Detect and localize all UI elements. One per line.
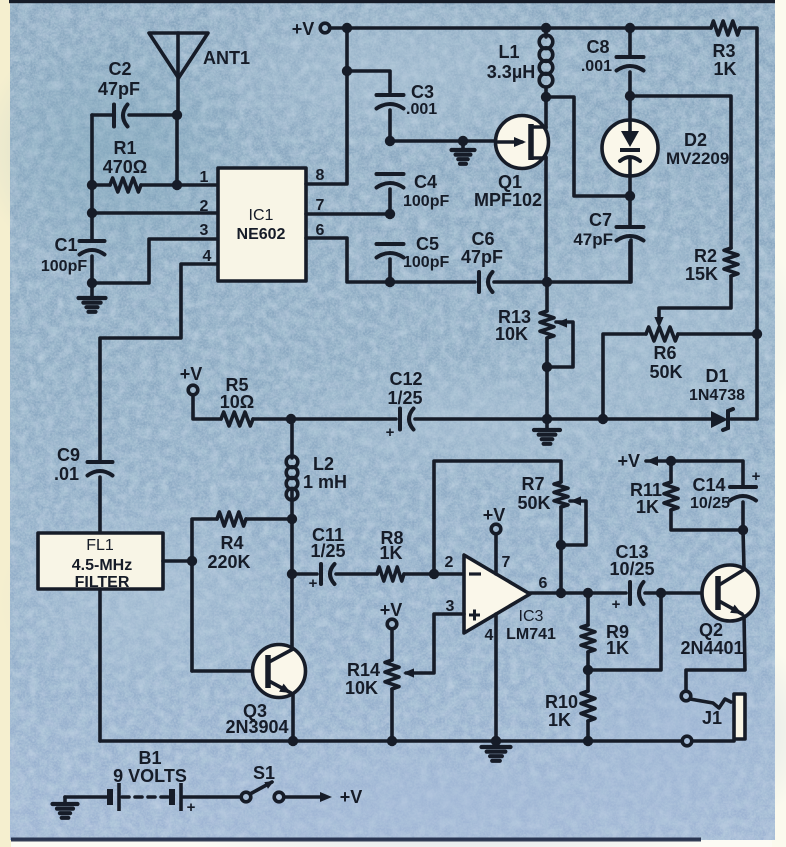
svg-text:1K: 1K [548, 710, 571, 730]
antenna ANT1 [149, 33, 250, 113]
svg-text:R3: R3 [712, 41, 735, 61]
svg-text:100pF: 100pF [403, 254, 449, 271]
jack J1 body [702, 694, 745, 739]
svg-text:7: 7 [502, 554, 511, 571]
wire R2 to R6 wiper [659, 276, 731, 318]
svg-text:+: + [187, 799, 196, 816]
wire R7 bottom [559, 507, 563, 593]
svg-text:50K: 50K [649, 362, 682, 382]
battery B1 [110, 783, 196, 816]
svg-text:+: + [386, 424, 395, 441]
transistor Q3 2N3904 [225, 645, 305, 738]
node L2 top junction [286, 414, 296, 424]
capacitor C6 [461, 229, 503, 292]
wire rail to J1 [692, 739, 734, 743]
R13 wiper [547, 318, 573, 367]
wire IC1 pin 6 [306, 238, 390, 282]
svg-text:4.5-MHz: 4.5-MHz [72, 557, 132, 574]
wire R4 right [246, 517, 292, 521]
capacitor C4 [377, 172, 450, 210]
node R1 right junction [172, 180, 182, 190]
wire battery to S1 [183, 795, 241, 799]
svg-text:15K: 15K [685, 264, 718, 284]
R14 wiper arrow [403, 668, 414, 677]
wire op-amp pin3 [406, 614, 464, 673]
wire D1 to right rail [731, 417, 757, 421]
node top rail junction C8 [625, 23, 635, 33]
capacitor C7 [573, 196, 643, 249]
wire C4 to pin7 line [388, 189, 392, 213]
pin 7 label [316, 197, 325, 214]
wire R3 to right rail [740, 28, 757, 419]
J1 sleeve terminal [682, 736, 692, 746]
wire R11 top to C14 [671, 461, 743, 485]
svg-text:C14: C14 [692, 475, 725, 495]
svg-text:10K: 10K [495, 324, 528, 344]
svg-text:+: + [309, 575, 318, 592]
node R13 wiper junction [542, 362, 552, 372]
svg-text:ANT1: ANT1 [203, 48, 250, 68]
wire op-amp pin4 [494, 614, 498, 741]
wire C11 to R8 [336, 572, 377, 576]
svg-text:100pF: 100pF [403, 193, 449, 210]
svg-text:R7: R7 [521, 474, 544, 494]
wire IC1 pin 3 [92, 239, 218, 283]
op-amp IC3 LM741 [464, 555, 556, 643]
node FL1 output junction [187, 556, 197, 566]
svg-text:7: 7 [316, 197, 325, 214]
pin 3 label [200, 222, 209, 239]
wire left rail [90, 115, 94, 241]
pin 8 label [316, 167, 325, 184]
wire +V to rail [330, 26, 347, 30]
svg-text:C1: C1 [54, 235, 77, 255]
svg-text:1/25: 1/25 [387, 388, 422, 408]
node pin2 junction [87, 208, 97, 218]
capacitor C5 [377, 234, 450, 271]
svg-text:+V: +V [340, 787, 363, 807]
pin 6 label [316, 222, 325, 239]
potentiometer R7 [517, 474, 568, 513]
svg-text:3: 3 [200, 222, 209, 239]
node R10 ground junction [583, 736, 593, 746]
wire bottom line right [494, 240, 631, 282]
wire R13 top [545, 282, 549, 311]
svg-text:2: 2 [200, 198, 209, 215]
node gate ground junction [458, 136, 468, 146]
svg-text:220K: 220K [207, 552, 250, 572]
wire left rail to R1 [92, 183, 110, 187]
svg-text:470Ω: 470Ω [103, 157, 147, 177]
wire Q1 source [544, 157, 548, 282]
+V R14 terminal [380, 600, 403, 629]
R6 wiper arrow [654, 317, 663, 328]
wire Q3 collector [290, 574, 294, 648]
node C3-C4 junction [385, 136, 395, 146]
node Q2 collector junction [738, 525, 748, 535]
wire R6 right [678, 332, 757, 336]
node pin4 ground junction [491, 736, 501, 746]
svg-text:B1: B1 [138, 748, 161, 768]
svg-text:2N3904: 2N3904 [225, 717, 288, 737]
wire Q3 emitter [291, 694, 295, 741]
node output junction R7 [556, 588, 566, 598]
node output junction R9 [583, 588, 593, 598]
svg-text:IC3: IC3 [519, 608, 544, 625]
pin 7 label IC3 [502, 554, 511, 571]
svg-text:.01: .01 [54, 464, 79, 484]
filter FL1 box [38, 533, 163, 591]
wire C13 to Q2 base [645, 591, 703, 595]
capacitor C8 [581, 28, 644, 75]
transistor Q2 2N4401 [680, 565, 758, 658]
node pin7 junction [385, 209, 395, 219]
ground on gate line [452, 141, 475, 164]
+V battery label [340, 787, 363, 807]
node C8-D2 junction [625, 91, 635, 101]
wire branch to C3 [347, 71, 390, 92]
wire Q2 emitter [686, 616, 745, 691]
wire bottom line left [390, 280, 475, 284]
wire R8 to op-amp [404, 572, 464, 576]
svg-text:9 VOLTS: 9 VOLTS [113, 766, 187, 786]
node Q1 source junction [542, 277, 552, 287]
svg-text:10Ω: 10Ω [220, 392, 254, 412]
wire R1 to IC1 pin 1 [141, 183, 218, 187]
border bottom [11, 838, 701, 842]
capacitor C9 [54, 445, 113, 484]
svg-text:Q1: Q1 [498, 172, 522, 192]
resistor R4 [207, 512, 250, 572]
svg-text:6: 6 [539, 575, 548, 592]
resistor R5 [220, 375, 254, 426]
R7 wiper [561, 496, 586, 545]
svg-text:C8: C8 [586, 37, 609, 57]
svg-text:10K: 10K [345, 678, 378, 698]
pin 4 label IC3 [485, 627, 494, 644]
ground below IC3 [482, 741, 511, 761]
svg-text:C2: C2 [108, 59, 131, 79]
svg-text:1K: 1K [713, 59, 736, 79]
node Q3 emitter junction [288, 736, 298, 746]
svg-text:+V: +V [617, 451, 640, 471]
svg-text:LM741: LM741 [506, 626, 556, 643]
node R13 ground junction [542, 414, 552, 424]
wire pin8 riser [306, 28, 347, 184]
ground below R13 [534, 419, 560, 444]
resistor R8 [377, 528, 404, 581]
IC IC1 NE602 [218, 168, 306, 281]
node R14 ground junction [387, 736, 397, 746]
wire op-amp output [528, 591, 626, 595]
wire bottom rail [100, 739, 682, 743]
J1 contact [690, 699, 731, 708]
node R11 top junction [666, 456, 676, 466]
wire C1 to ground [90, 256, 94, 297]
+V op-amp terminal [483, 505, 506, 534]
wire IC1 pin 7 [306, 212, 390, 216]
node pin3 junction [87, 278, 97, 288]
svg-text:1: 1 [200, 169, 209, 186]
wire op-amp pin7 [494, 534, 498, 574]
svg-text:C12: C12 [389, 369, 422, 389]
svg-text:FILTER: FILTER [75, 574, 130, 591]
capacitor C1 [41, 235, 105, 275]
wire gate line to Q1 [390, 139, 496, 143]
wire R5 to C12 [253, 417, 396, 421]
capacitor C3 [377, 82, 438, 118]
J1 tip terminal [681, 691, 691, 701]
+V mid terminal [180, 364, 203, 395]
+V top terminal [292, 19, 330, 39]
svg-text:100pF: 100pF [41, 258, 87, 275]
svg-text:.001: .001 [581, 58, 612, 75]
potentiometer R14 [345, 660, 399, 698]
potentiometer R6 [646, 327, 683, 382]
ground battery [53, 797, 108, 818]
svg-text:+V: +V [292, 19, 315, 39]
ground below C1 [79, 298, 106, 312]
svg-text:R6: R6 [653, 343, 676, 363]
wire C8 to D2 [628, 72, 632, 120]
node top rail junction A [342, 23, 352, 33]
switch S1 [241, 763, 284, 802]
svg-text:2: 2 [445, 554, 454, 571]
pin 1 label [200, 169, 209, 186]
svg-text:MPF102: MPF102 [474, 190, 542, 210]
svg-text:C6: C6 [471, 229, 494, 249]
svg-text:8: 8 [316, 167, 325, 184]
svg-text:L2: L2 [313, 454, 334, 474]
wire C2 right [129, 113, 177, 117]
svg-text:S1: S1 [253, 763, 275, 783]
wire R9 loop to C13 [588, 593, 661, 670]
svg-text:10/25: 10/25 [609, 559, 654, 579]
svg-text:C9: C9 [57, 445, 80, 465]
svg-text:47pF: 47pF [573, 230, 613, 249]
wire C9 to FL1 [98, 477, 102, 533]
svg-text:R4: R4 [220, 533, 243, 553]
battery B1 labels [113, 748, 187, 786]
svg-text:R14: R14 [347, 660, 380, 680]
node op-amp pin2 junction [429, 569, 439, 579]
wire FL1 bottom [98, 589, 102, 741]
svg-text:50K: 50K [517, 493, 550, 513]
node D2 bottom junction [625, 191, 635, 201]
svg-text:C5: C5 [416, 234, 439, 254]
resistor R1 [103, 138, 147, 192]
node L1 bottom junction [541, 92, 551, 102]
diode D1 1N4738 [689, 366, 745, 430]
svg-text:+V: +V [380, 600, 403, 620]
node top rail junction L1 [541, 23, 551, 33]
wire R10 bottom [586, 721, 590, 741]
svg-text:C4: C4 [414, 172, 437, 192]
wire C7 down [628, 242, 632, 282]
node L2 bottom junction [287, 514, 297, 524]
wire R13 bottom [545, 338, 549, 419]
wire L1 junction to D2 bottom [546, 97, 630, 196]
pin 2 label [200, 198, 209, 215]
wire Q2 collector [743, 530, 744, 568]
wire top rail [347, 26, 711, 30]
svg-text:.001: .001 [406, 101, 437, 118]
wire +V to R14 [390, 629, 394, 660]
node R6 left junction [598, 414, 608, 424]
transistor Q1 MPF102 [474, 116, 549, 211]
inductor L2 [286, 419, 347, 519]
wire C14 bottom [741, 502, 745, 530]
resistor R10 [545, 691, 595, 730]
wire C2 left [92, 113, 114, 117]
node right rail R6 junction [752, 329, 762, 339]
pin 6 label IC3 [539, 575, 548, 592]
svg-text:1 mH: 1 mH [303, 472, 347, 492]
node C13 right junction [656, 588, 666, 598]
resistor R2 [685, 246, 738, 284]
wire +V to R5 [193, 395, 221, 419]
capacitor C14 [690, 468, 761, 512]
pin 3 label IC3 [446, 598, 455, 615]
wire FL1 output [163, 559, 192, 563]
svg-text:MV2209: MV2209 [666, 149, 729, 168]
pin 2 label IC3 [445, 554, 454, 571]
wire junction to R2 [630, 96, 731, 248]
resistor R3 [711, 21, 740, 79]
svg-text:1K: 1K [606, 638, 629, 658]
svg-text:1K: 1K [636, 497, 659, 517]
node pin6 junction [385, 277, 395, 287]
svg-text:+: + [612, 596, 621, 613]
node R9-R10 junction [583, 665, 593, 675]
wire R9 bottom [586, 652, 590, 691]
resistor R9 [581, 593, 629, 658]
wire feedback loop [434, 461, 561, 574]
svg-text:J1: J1 [702, 708, 722, 728]
node antenna-C2 junction [172, 110, 182, 120]
svg-text:47pF: 47pF [461, 247, 503, 267]
capacitor C2 [98, 59, 140, 127]
capacitor C12 [386, 369, 423, 441]
capacitor C13 [609, 542, 654, 613]
capacitor C11 [292, 525, 346, 592]
svg-text:R2: R2 [694, 246, 717, 266]
wire C5 to bottom line [388, 259, 392, 282]
svg-text:1K: 1K [379, 543, 402, 563]
svg-text:47pF: 47pF [98, 79, 140, 99]
svg-text:4: 4 [203, 248, 212, 265]
svg-text:NE602: NE602 [237, 226, 286, 243]
wire IC1 pin 4 [100, 264, 218, 460]
svg-text:1/25: 1/25 [310, 541, 345, 561]
wire C3 to gate line [388, 110, 392, 141]
wire R14 bottom [390, 689, 394, 741]
wire S1 to +V [284, 792, 332, 802]
svg-text:Q2: Q2 [699, 620, 723, 640]
wire L2 junction down [290, 519, 294, 574]
svg-text:+: + [752, 468, 761, 485]
svg-text:+V: +V [483, 505, 506, 525]
border top [9, 0, 775, 3]
node R7 wiper junction [556, 540, 566, 550]
wire C12 to R13 line [415, 417, 711, 421]
svg-text:2N4401: 2N4401 [680, 638, 743, 658]
svg-text:D2: D2 [684, 130, 707, 150]
wire R11 bottom [671, 510, 743, 530]
pin 4 label [203, 248, 212, 265]
node R1 left junction [87, 180, 97, 190]
wire Q1 drain [544, 97, 548, 128]
svg-text:10/25: 10/25 [690, 495, 730, 512]
svg-text:3.3µH: 3.3µH [487, 62, 535, 82]
svg-text:R1: R1 [113, 138, 136, 158]
svg-text:IC1: IC1 [249, 207, 274, 224]
wire R4 left [192, 519, 217, 671]
+V R11 terminal [617, 451, 671, 471]
wire IC1 pin 2 [92, 211, 218, 215]
diode D2 MV2209 [602, 120, 729, 176]
svg-text:R10: R10 [545, 692, 578, 712]
wire antenna to R1 junction [175, 115, 179, 185]
resistor R11 [630, 461, 678, 517]
wire D2 to junction [628, 175, 632, 196]
svg-text:C7: C7 [589, 210, 612, 230]
svg-text:FL1: FL1 [86, 537, 114, 554]
wire R6 left [603, 334, 646, 419]
node C11 junction [287, 569, 297, 579]
svg-text:L1: L1 [498, 42, 519, 62]
svg-text:C3: C3 [411, 82, 434, 102]
potentiometer R13 [495, 307, 554, 344]
node pin8 branch [342, 66, 352, 76]
inductor L1 [487, 28, 553, 97]
svg-text:D1: D1 [705, 366, 728, 386]
svg-text:1N4738: 1N4738 [689, 387, 745, 404]
svg-text:+V: +V [180, 364, 203, 384]
svg-text:4: 4 [485, 627, 494, 644]
wire Q3 base [192, 669, 253, 673]
